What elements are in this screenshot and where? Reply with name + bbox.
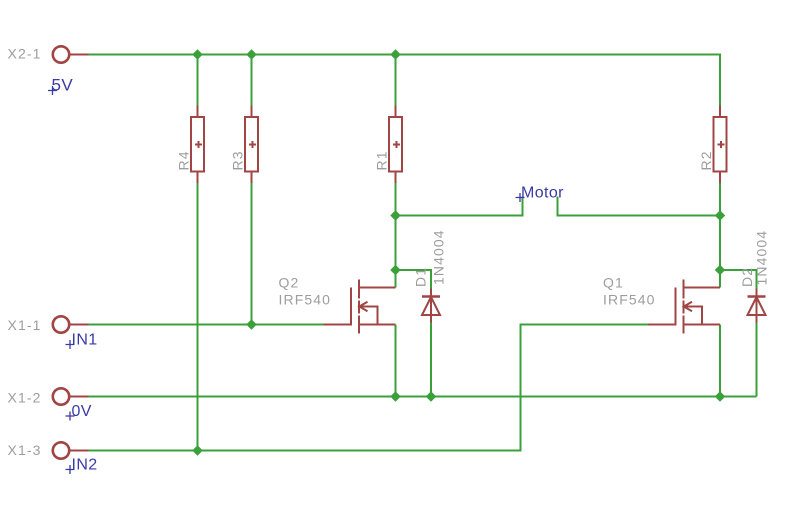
- junction motor/R2: [715, 210, 725, 220]
- junction 0V/Q2 source: [390, 391, 400, 401]
- wire R1 top lead net: [395, 55, 397, 106]
- svg-text:IRF540: IRF540: [603, 292, 656, 308]
- resistor R4: [191, 106, 204, 184]
- wire IN2 line to Q1 gate: [89, 325, 649, 451]
- wire 0V line: [89, 396, 757, 398]
- junction Q2 drain/D1: [390, 265, 400, 275]
- wire IN1 line: [89, 324, 324, 326]
- svg-text:IN2: IN2: [72, 457, 98, 474]
- svg-text:X1-3: X1-3: [8, 442, 42, 458]
- net label 0V: [66, 403, 92, 421]
- junction 0V/Q1 source: [715, 391, 725, 401]
- gate lead: [648, 324, 676, 326]
- svg-text:D1: D1: [413, 267, 429, 287]
- svg-text:IN1: IN1: [72, 332, 98, 349]
- svg-text:5V: 5V: [52, 76, 74, 95]
- wire Q1 source to 0V line: [719, 325, 721, 397]
- wire motor line right with stub: [558, 197, 721, 216]
- svg-text:X1-1: X1-1: [8, 317, 42, 333]
- wire R3 bottom to IN1 line: [251, 183, 253, 325]
- wire R2 bottom to Q1 drain node: [719, 183, 721, 270]
- connector pin X1-3: [53, 442, 89, 458]
- wire Q1 drain link: [719, 270, 721, 288]
- source lead: [684, 324, 721, 326]
- resistor R2: [714, 106, 727, 184]
- svg-text:IRF540: IRF540: [279, 292, 332, 308]
- channel segments: [683, 280, 685, 299]
- wire Q2 source to 0V line: [395, 325, 397, 397]
- wire D1 bottom to 0V line: [430, 323, 432, 397]
- svg-text:1N4004: 1N4004: [754, 230, 770, 286]
- svg-text:Q1: Q1: [603, 275, 624, 291]
- junction 5V/R4: [192, 49, 202, 59]
- connector pin X1-1: [53, 316, 89, 332]
- svg-text:0V: 0V: [72, 403, 92, 420]
- wire D2 bottom to 0V line: [756, 323, 758, 397]
- resistor R3: [245, 106, 258, 184]
- svg-text:Q2: Q2: [279, 275, 300, 291]
- net label IN1: [66, 332, 98, 350]
- junction 0V/D1: [426, 391, 436, 401]
- net label 5V: [48, 76, 73, 96]
- body arrow: [684, 302, 702, 325]
- connector pin X1-2: [53, 388, 89, 404]
- junction 5V/R3: [246, 49, 256, 59]
- wire motor line left with stub: [396, 197, 523, 216]
- svg-text:X2-1: X2-1: [8, 46, 42, 62]
- junction 5V/R1: [390, 49, 400, 59]
- wire D1 branch: [396, 270, 432, 289]
- wire 5V rail: [89, 55, 721, 106]
- svg-text:R3: R3: [230, 150, 246, 170]
- junction motor/R1: [390, 210, 400, 220]
- wire R4 bottom to IN2 line: [197, 183, 199, 451]
- junction IN2/R4: [192, 445, 202, 455]
- channel segments: [358, 280, 360, 299]
- wire R1 bottom to motor node: [395, 183, 397, 270]
- net label IN2: [66, 457, 98, 475]
- transistor Q1: [648, 280, 720, 334]
- svg-text:1N4004: 1N4004: [431, 229, 447, 285]
- junction Q1 drain/D2: [715, 265, 725, 275]
- connector pin X2-1: [53, 46, 89, 62]
- wire Q2 drain link: [395, 270, 397, 288]
- wire R3 top lead net: [251, 55, 253, 106]
- gate lead: [324, 324, 352, 326]
- drain lead: [684, 287, 721, 289]
- svg-text:R2: R2: [698, 150, 714, 170]
- body arrow: [359, 302, 377, 325]
- junction IN1/R3: [246, 319, 256, 329]
- svg-text:R4: R4: [176, 150, 192, 170]
- gate bar: [675, 288, 677, 326]
- resistor R1: [389, 106, 402, 184]
- wire D2 branch: [720, 270, 757, 289]
- diode D2: [748, 289, 766, 323]
- wire R4 top lead net: [197, 55, 199, 106]
- net label Motor: [516, 185, 565, 203]
- source lead: [359, 324, 396, 326]
- drain lead: [359, 287, 396, 289]
- gate bar: [350, 288, 352, 326]
- transistor Q2: [324, 280, 396, 334]
- svg-text:R1: R1: [374, 150, 390, 170]
- svg-text:Motor: Motor: [521, 185, 564, 202]
- diode D1: [422, 289, 440, 323]
- svg-text:X1-2: X1-2: [8, 390, 42, 406]
